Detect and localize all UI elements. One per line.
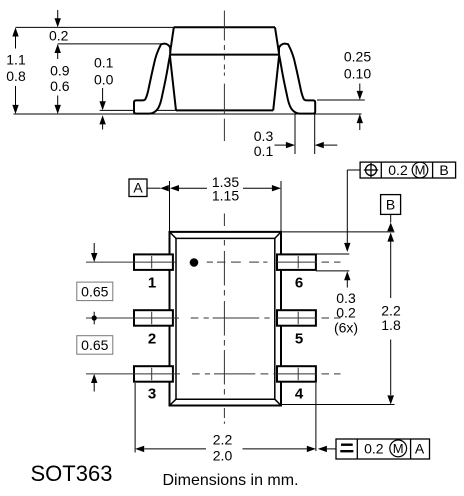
feature control frame: symmetry 0.2 M A — [318, 439, 430, 459]
transistor lead left (gull wing) — [134, 44, 170, 114]
dimension 0.65 pitch (rows 1-2) — [77, 243, 113, 301]
svg-text:0.65: 0.65 — [81, 337, 108, 353]
svg-text:B: B — [439, 162, 448, 178]
wire: leader from position FCF to pin 6 — [344, 170, 360, 252]
svg-text:4: 4 — [295, 385, 304, 402]
wire: body bottom-right extension line — [281, 404, 395, 406]
dimension 1.35/1.15 (body width) — [147, 174, 281, 232]
svg-text:5: 5 — [295, 331, 303, 348]
pin 2 pad — [134, 310, 173, 326]
pin 6 pad — [277, 254, 316, 270]
svg-text:0.25: 0.25 — [344, 49, 371, 65]
svg-text:0.9: 0.9 — [50, 62, 70, 78]
svg-text:M: M — [393, 441, 404, 456]
svg-text:(6x): (6x) — [334, 319, 358, 335]
svg-text:A: A — [415, 441, 425, 457]
svg-text:2.2: 2.2 — [213, 432, 233, 448]
package body bottom view outline — [170, 232, 282, 406]
wire: right foot top extension line — [317, 99, 365, 101]
dimension 0.3/0.2 (6x) pin width — [316, 254, 358, 335]
svg-text:2.0: 2.0 — [213, 448, 233, 464]
svg-text:0.2: 0.2 — [336, 304, 356, 320]
dimension 0.65 pitch (rows 2-3) — [77, 336, 113, 392]
pin number labels — [148, 275, 304, 403]
node: junction dot on row 2 centerline — [92, 312, 97, 325]
svg-text:0.65: 0.65 — [81, 284, 108, 300]
node: pin row 1 centerline — [86, 261, 341, 263]
datum B box — [381, 195, 401, 215]
node: bottom view vertical centerline — [223, 214, 225, 424]
svg-text:0.3: 0.3 — [254, 128, 274, 144]
wire: lead top reference line L2 — [58, 43, 161, 45]
wire: seating plane line — [14, 113, 362, 115]
svg-text:Dimensions in mm.: Dimensions in mm. — [163, 472, 299, 489]
svg-text:0.1: 0.1 — [254, 143, 274, 159]
svg-text:0.8: 0.8 — [6, 68, 26, 84]
svg-text:0.6: 0.6 — [50, 78, 70, 94]
dimension 0.9/0.6 (body height) — [50, 44, 70, 114]
dimension 0.3/0.1 (foot length) — [254, 114, 338, 159]
svg-text:1.8: 1.8 — [381, 317, 401, 333]
svg-text:0.10: 0.10 — [344, 66, 371, 82]
dimension 2.2/1.8 (body length) with datum B leader — [381, 214, 401, 404]
svg-text:2: 2 — [148, 331, 156, 348]
wire: body top-right extension line to datum B — [281, 231, 395, 233]
node: pin row 3 centerline — [86, 373, 341, 375]
svg-text:M: M — [415, 163, 426, 178]
feature control frame: position 0.2 M B — [360, 162, 456, 178]
package body side view — [170, 27, 279, 110]
svg-text:6: 6 — [295, 275, 303, 292]
svg-text:0.2: 0.2 — [49, 28, 69, 44]
svg-text:B: B — [386, 196, 395, 212]
datum A box — [129, 179, 147, 197]
svg-text:0.1: 0.1 — [94, 55, 114, 71]
svg-text:0.2: 0.2 — [364, 441, 384, 457]
svg-text:1: 1 — [148, 275, 156, 292]
dimension 2.2/2.0 (span) — [135, 383, 316, 464]
wire: top reference line L1 — [16, 26, 175, 28]
svg-text:A: A — [133, 179, 143, 195]
wire: body bottom extension line (left) — [100, 109, 186, 111]
caption Dimensions in mm. — [163, 472, 299, 489]
svg-text:1.15: 1.15 — [212, 188, 239, 204]
wire: body bottom edge — [176, 109, 273, 111]
wire: body waist line — [170, 54, 279, 56]
svg-text:SOT363: SOT363 — [31, 461, 113, 486]
svg-text:1.1: 1.1 — [6, 52, 26, 68]
svg-text:3: 3 — [148, 385, 156, 402]
dimension 0.2 (top cap) — [49, 10, 69, 44]
wire: body lower-left slant edge — [170, 55, 176, 111]
title SOT363 — [31, 461, 113, 486]
dimension 1.1/0.8 (overall height) — [6, 27, 26, 114]
node: pin row 2 centerline — [86, 317, 341, 319]
pin 5 pad — [277, 310, 316, 326]
transistor lead right (gull wing, mirror of left) — [279, 44, 315, 114]
pin 1 pad — [134, 254, 173, 270]
svg-text:0.2: 0.2 — [388, 162, 408, 178]
node: side view vertical centerline — [223, 11, 225, 142]
dimension 0.1/0.0 (standoff) — [94, 55, 114, 130]
pin 1 index dot — [190, 258, 199, 267]
pin 4 pad — [277, 366, 316, 382]
pin 3 pad — [134, 366, 173, 382]
svg-text:0.0: 0.0 — [94, 72, 114, 88]
dimension 0.25/0.10 (lead thickness) — [344, 49, 371, 130]
wire: body lower-right slant edge — [273, 55, 279, 111]
